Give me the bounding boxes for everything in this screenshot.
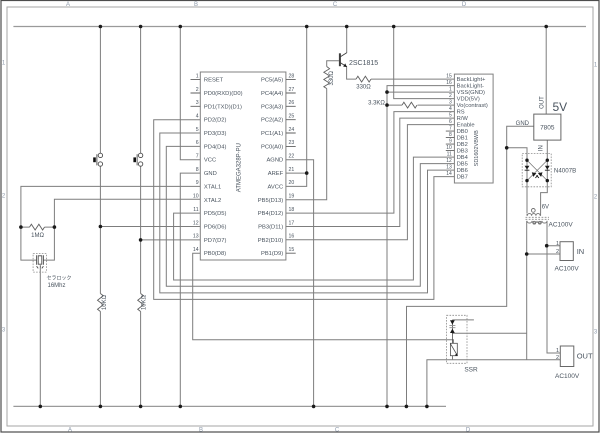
- svg-text:Vo(contrast): Vo(contrast): [457, 103, 488, 109]
- svg-text:10: 10: [446, 145, 452, 151]
- svg-text:3: 3: [449, 100, 452, 106]
- svg-text:Enable: Enable: [457, 123, 475, 129]
- svg-text:DB5: DB5: [457, 162, 468, 168]
- svg-text:3.3KΩ: 3.3KΩ: [368, 100, 385, 106]
- svg-text:PD1(TXD)(D1): PD1(TXD)(D1): [204, 104, 242, 110]
- svg-text:DB2: DB2: [457, 142, 468, 148]
- svg-text:13: 13: [446, 165, 452, 171]
- svg-text:4: 4: [449, 106, 452, 112]
- svg-text:VSS(GND): VSS(GND): [457, 90, 485, 96]
- svg-text:N4007B: N4007B: [554, 167, 576, 174]
- svg-text:10KΩ: 10KΩ: [142, 294, 148, 310]
- svg-text:10KΩ: 10KΩ: [102, 294, 108, 310]
- svg-text:セラロック: セラロック: [47, 275, 72, 281]
- svg-text:10: 10: [193, 194, 199, 200]
- svg-text:PB3(D11): PB3(D11): [258, 225, 283, 231]
- svg-text:ATMEGA328P-PU: ATMEGA328P-PU: [237, 143, 243, 192]
- svg-text:A: A: [68, 428, 72, 433]
- svg-text:SSR: SSR: [464, 367, 478, 374]
- svg-text:28: 28: [289, 73, 295, 79]
- svg-text:PB4(D12): PB4(D12): [258, 211, 284, 217]
- svg-text:2SC1815: 2SC1815: [349, 60, 378, 67]
- svg-text:AC100V: AC100V: [555, 265, 580, 272]
- svg-text:26: 26: [289, 100, 295, 106]
- svg-text:4: 4: [196, 114, 199, 120]
- svg-text:21: 21: [289, 167, 295, 173]
- svg-text:PC3(A3): PC3(A3): [261, 104, 283, 110]
- svg-text:9: 9: [449, 139, 452, 145]
- svg-text:7: 7: [449, 126, 452, 132]
- svg-text:2: 2: [449, 93, 452, 99]
- svg-text:SD1602VBWB: SD1602VBWB: [474, 130, 480, 166]
- svg-text:PD4(D4): PD4(D4): [204, 144, 227, 150]
- svg-text:A: A: [66, 2, 70, 8]
- svg-text:PD0(RXD)(D0): PD0(RXD)(D0): [204, 91, 243, 97]
- svg-text:PD3(D3): PD3(D3): [204, 131, 227, 137]
- svg-text:PD7(D7): PD7(D7): [204, 238, 227, 244]
- svg-text:PD6(D6): PD6(D6): [204, 225, 227, 231]
- svg-text:16Mhz: 16Mhz: [48, 283, 66, 289]
- svg-text:7: 7: [196, 154, 199, 160]
- svg-text:6: 6: [196, 140, 199, 146]
- svg-text:5: 5: [196, 127, 199, 133]
- svg-text:PD2(D2): PD2(D2): [204, 118, 227, 124]
- svg-text:12: 12: [446, 158, 452, 164]
- svg-text:6: 6: [449, 119, 452, 125]
- svg-text:13: 13: [193, 234, 199, 240]
- svg-text:14: 14: [446, 171, 452, 177]
- svg-text:6V: 6V: [542, 205, 549, 211]
- svg-text:24: 24: [289, 127, 295, 133]
- svg-text:PC1(A1): PC1(A1): [261, 131, 283, 137]
- svg-text:D: D: [462, 2, 467, 8]
- svg-text:DB3: DB3: [457, 149, 468, 155]
- svg-text:25: 25: [289, 114, 295, 120]
- svg-text:D: D: [466, 428, 471, 433]
- svg-text:DB1: DB1: [457, 136, 468, 142]
- svg-text:OUT: OUT: [540, 96, 546, 109]
- svg-text:PB1(D9): PB1(D9): [261, 251, 283, 257]
- svg-text:15: 15: [446, 74, 452, 80]
- svg-text:22: 22: [289, 154, 295, 160]
- svg-text:AC100V: AC100V: [555, 373, 580, 380]
- svg-text:PC0(A0): PC0(A0): [261, 144, 283, 150]
- svg-text:16: 16: [289, 234, 295, 240]
- svg-text:330Ω: 330Ω: [356, 85, 371, 91]
- svg-text:B: B: [199, 428, 203, 433]
- svg-text:17: 17: [289, 220, 295, 226]
- svg-text:23: 23: [289, 140, 295, 146]
- svg-text:14: 14: [193, 247, 199, 253]
- svg-text:1: 1: [556, 348, 559, 354]
- svg-text:GND: GND: [516, 121, 530, 127]
- svg-text:RESET: RESET: [204, 78, 224, 84]
- svg-text:AGND: AGND: [266, 158, 283, 164]
- svg-text:C: C: [333, 2, 338, 8]
- svg-text:BackLight-: BackLight-: [457, 84, 484, 90]
- svg-text:15: 15: [289, 247, 295, 253]
- svg-text:12: 12: [193, 220, 199, 226]
- svg-text:330Ω: 330Ω: [329, 71, 335, 86]
- svg-text:8: 8: [449, 132, 452, 138]
- svg-text:IN: IN: [539, 145, 545, 151]
- svg-text:AC100V: AC100V: [549, 222, 574, 229]
- svg-text:7805: 7805: [540, 125, 555, 132]
- svg-text:DB0: DB0: [457, 129, 468, 135]
- svg-text:11: 11: [193, 207, 198, 213]
- svg-text:20: 20: [289, 180, 295, 186]
- svg-text:2: 2: [196, 87, 199, 93]
- svg-text:5V: 5V: [553, 100, 568, 114]
- svg-text:DB4: DB4: [457, 155, 469, 161]
- svg-text:DB6: DB6: [457, 168, 468, 174]
- svg-text:PC5(A5): PC5(A5): [261, 78, 283, 84]
- svg-text:GND: GND: [204, 171, 217, 177]
- svg-text:XTAL1: XTAL1: [204, 184, 221, 190]
- svg-text:3: 3: [196, 100, 199, 106]
- svg-text:PB2(D10): PB2(D10): [258, 238, 284, 244]
- svg-text:DB7: DB7: [457, 175, 468, 181]
- svg-text:AVCC: AVCC: [268, 184, 284, 190]
- svg-text:5: 5: [449, 113, 452, 119]
- svg-text:1: 1: [449, 87, 452, 93]
- svg-text:RS: RS: [457, 110, 465, 116]
- svg-text:8: 8: [196, 167, 199, 173]
- svg-text:R/W: R/W: [457, 116, 469, 122]
- svg-text:1: 1: [556, 241, 559, 247]
- svg-text:11: 11: [447, 152, 452, 158]
- svg-text:19: 19: [289, 194, 295, 200]
- svg-text:PB0(D8): PB0(D8): [204, 251, 226, 257]
- svg-text:2: 2: [556, 249, 559, 255]
- svg-text:27: 27: [289, 87, 295, 93]
- svg-text:2: 2: [556, 355, 559, 361]
- svg-text:PC2(A2): PC2(A2): [261, 118, 283, 124]
- svg-text:C: C: [335, 428, 340, 433]
- svg-text:PD5(D5): PD5(D5): [204, 211, 227, 217]
- svg-text:9: 9: [196, 180, 199, 186]
- svg-text:16: 16: [446, 80, 452, 86]
- svg-text:1: 1: [196, 73, 199, 79]
- svg-text:OUT: OUT: [577, 351, 593, 360]
- svg-text:AREF: AREF: [268, 171, 284, 177]
- svg-text:XTAL2: XTAL2: [204, 198, 221, 204]
- svg-text:BackLight+: BackLight+: [457, 77, 486, 83]
- svg-text:VCC: VCC: [204, 158, 216, 164]
- svg-text:B: B: [194, 2, 198, 8]
- svg-text:1MΩ: 1MΩ: [31, 233, 44, 239]
- svg-text:IN: IN: [577, 247, 585, 256]
- svg-text:PB5(D13): PB5(D13): [258, 198, 284, 204]
- svg-text:VDD(5V): VDD(5V): [457, 97, 480, 103]
- svg-text:18: 18: [289, 207, 295, 213]
- svg-text:PC4(A4): PC4(A4): [261, 91, 283, 97]
